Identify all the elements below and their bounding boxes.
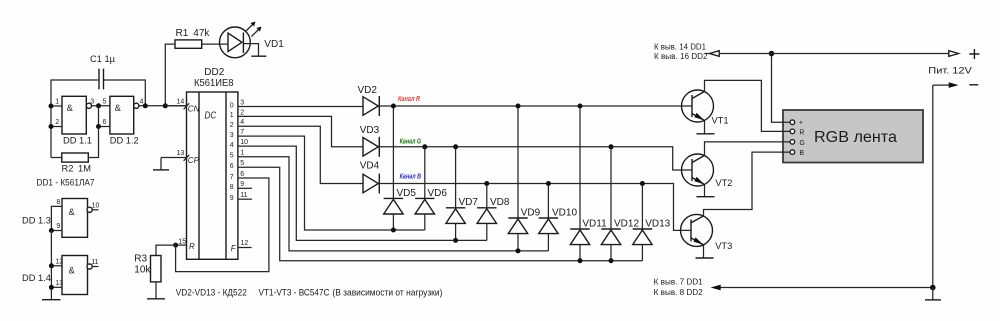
svg-text:DD1 - К561ЛА7: DD1 - К561ЛА7 xyxy=(37,178,95,188)
wire VT2 emitter to ground xyxy=(704,185,706,197)
svg-text:4: 4 xyxy=(140,98,144,105)
svg-text:VD3: VD3 xyxy=(360,125,380,136)
wire VD1 cathode to ground xyxy=(243,44,258,57)
output bubble pin 4 DD1.2 xyxy=(134,98,144,108)
ground bottom right xyxy=(925,288,941,300)
svg-text:VD5: VD5 xyxy=(397,188,417,199)
diode VD7 xyxy=(446,147,478,241)
svg-text:CP: CP xyxy=(188,156,200,165)
svg-text:G: G xyxy=(799,140,804,147)
diode VD8 xyxy=(477,184,510,241)
svg-text:&: & xyxy=(67,103,74,113)
pin 14 CN input xyxy=(165,98,199,113)
svg-text:VT3: VT3 xyxy=(715,241,732,251)
wire junction down to pin 6 xyxy=(99,106,110,127)
svg-text:DD 1.4: DD 1.4 xyxy=(22,273,51,283)
svg-text:C1 1µ: C1 1µ xyxy=(90,54,116,64)
svg-text:1: 1 xyxy=(240,150,244,157)
wire R1 left down to CN node xyxy=(165,44,175,106)
resistor R1 47k xyxy=(175,28,210,48)
diode VD13 xyxy=(633,184,671,261)
diode VD9 xyxy=(508,106,540,251)
svg-text:R2 1M: R2 1M xyxy=(62,163,91,173)
bottom return wire to arrow xyxy=(711,285,933,291)
node junction VD7 top on G xyxy=(453,144,458,149)
wire input bus down xyxy=(50,231,52,300)
svg-text:R: R xyxy=(189,242,195,251)
node junction R1 branch xyxy=(163,103,168,108)
svg-text:6: 6 xyxy=(240,171,244,178)
node junction pin 9 xyxy=(49,228,54,233)
svg-text:8: 8 xyxy=(230,184,234,191)
svg-text:DD 1.2: DD 1.2 xyxy=(110,136,139,146)
capacitor C1 xyxy=(90,54,116,89)
wire DD1.1 out to DD1.2 inputs xyxy=(92,105,110,107)
diode VD11 xyxy=(570,106,607,261)
svg-text:VD6: VD6 xyxy=(428,188,448,199)
wire out8 pin9 stub xyxy=(238,187,252,189)
svg-text:К выв. 16 DD2: К выв. 16 DD2 xyxy=(654,52,708,61)
svg-text:+: + xyxy=(799,120,803,127)
svg-text:VT2: VT2 xyxy=(715,178,732,188)
svg-text:9: 9 xyxy=(240,181,244,188)
ground CP xyxy=(153,158,169,170)
counter DD2 K561IE8 xyxy=(187,67,238,259)
node junction R pin xyxy=(173,243,178,248)
svg-text:15: 15 xyxy=(178,238,186,245)
svg-text:3: 3 xyxy=(230,132,234,139)
+12V rail xyxy=(705,51,959,57)
wire VT3 emitter to ground xyxy=(703,245,705,258)
svg-text:5: 5 xyxy=(103,98,107,105)
pin 8 DD1.3 xyxy=(51,199,62,231)
diode VD5 xyxy=(384,106,417,230)
wire VT1 collector to RGB R pin xyxy=(705,80,791,131)
svg-text:10k: 10k xyxy=(134,264,151,275)
node junction pin 12 xyxy=(49,263,54,268)
ground R3 xyxy=(147,282,165,299)
wire out7 pin6 to R pin xyxy=(176,178,269,272)
svg-text:Канал R: Канал R xyxy=(398,96,420,103)
node junction bottom ground xyxy=(930,285,936,291)
svg-text:VD2: VD2 xyxy=(358,85,378,96)
svg-text:5: 5 xyxy=(230,153,234,160)
svg-text:R1 47k: R1 47k xyxy=(176,28,211,39)
svg-text:7: 7 xyxy=(230,174,234,181)
DD2 output labels 0-9 xyxy=(230,102,234,202)
DD2 output pin numbers xyxy=(240,99,248,199)
gate DD1.4 xyxy=(22,256,88,295)
ground VD1 xyxy=(251,55,266,57)
wire out6 pin5 to bus4 xyxy=(238,167,643,260)
svg-text:0: 0 xyxy=(230,102,234,109)
diode VD4 xyxy=(360,161,380,194)
minus vertical rail xyxy=(932,85,934,287)
svg-text:8: 8 xyxy=(56,199,60,206)
resistor R2 1M xyxy=(62,153,91,173)
diode VD3 xyxy=(360,125,380,157)
pin R RGB xyxy=(790,129,804,136)
pin B RGB xyxy=(790,150,804,157)
diode VD2 xyxy=(358,85,380,116)
svg-text:9: 9 xyxy=(56,223,60,230)
wire R1 right to LED xyxy=(202,43,228,45)
wire out9 pin11 stub xyxy=(238,198,252,200)
ground VT2 xyxy=(697,196,715,198)
wire out2 pin4 to VD4 xyxy=(238,126,363,183)
svg-text:9: 9 xyxy=(230,195,234,202)
svg-text:B: B xyxy=(799,150,804,157)
transistor VT1 xyxy=(682,90,729,126)
node junction DD1.1 input pin2 xyxy=(49,124,54,129)
svg-text:4: 4 xyxy=(240,119,244,126)
pin 1 DD1.1 xyxy=(51,98,62,106)
svg-text:6: 6 xyxy=(103,119,107,126)
svg-text:13: 13 xyxy=(55,280,63,287)
wire C1 left to DD1.1 inputs xyxy=(51,80,99,158)
transistor VT2 xyxy=(682,154,733,188)
pin 2 DD1.1 xyxy=(51,119,62,127)
diode VD6 xyxy=(415,147,447,230)
output bubble pin 11 DD1.4 xyxy=(87,259,99,269)
transistor VT3 xyxy=(681,214,733,251)
wire DD1.2 output to DD2 CN xyxy=(139,105,187,107)
svg-text:VD1: VD1 xyxy=(264,39,284,50)
svg-text:5: 5 xyxy=(240,160,244,167)
svg-text:DD 1.3: DD 1.3 xyxy=(22,216,51,226)
pin 12 DD1.4 xyxy=(51,258,63,266)
node junction DD1.1 input pin1 xyxy=(49,104,54,109)
svg-text:VD10: VD10 xyxy=(552,207,577,218)
svg-text:12: 12 xyxy=(241,240,249,247)
svg-text:3: 3 xyxy=(240,99,244,106)
svg-text:6: 6 xyxy=(230,163,234,170)
node junction DD1.2 pin6 xyxy=(96,124,101,129)
node junction VD12 top on G xyxy=(609,144,614,149)
svg-text:VD12: VD12 xyxy=(614,218,639,229)
pin 15 R input xyxy=(176,238,195,251)
wire +12V to RGB + pin xyxy=(772,54,791,123)
svg-text:&: & xyxy=(69,266,76,276)
wire R2 left xyxy=(51,157,62,159)
node junction +12V rail xyxy=(769,51,775,57)
resistor R3 10k xyxy=(134,245,175,282)
node junction VD5 top on R xyxy=(391,104,396,109)
diode VD12 xyxy=(601,147,639,261)
node junction C1 feedback xyxy=(143,103,148,108)
svg-text:VD2-VD13 - КД522: VD2-VD13 - КД522 xyxy=(176,288,247,298)
gate DD1.1 xyxy=(62,96,92,145)
svg-text:11: 11 xyxy=(91,259,98,266)
wire VT2 collector to RGB G pin xyxy=(705,142,791,156)
pin 13 CP input xyxy=(161,150,200,165)
node junction VD5 bottom bus1 xyxy=(391,228,396,233)
svg-text:VT1: VT1 xyxy=(712,116,729,126)
ground VT3 xyxy=(696,257,714,259)
svg-text:1: 1 xyxy=(230,112,234,119)
wire C1 right to DD1.2 output node xyxy=(104,80,146,106)
wire out4 pin10 to bus2 xyxy=(238,146,487,240)
svg-text:VD7: VD7 xyxy=(459,197,479,208)
node junction VD10 top on B xyxy=(546,181,551,186)
svg-text:VD13: VD13 xyxy=(645,218,670,229)
wire VT3 collector to RGB B pin xyxy=(704,152,791,216)
svg-text:3: 3 xyxy=(90,98,94,105)
svg-text:2: 2 xyxy=(230,122,234,129)
plus terminal xyxy=(969,49,979,59)
svg-text:11: 11 xyxy=(240,192,247,199)
node Kanal R line xyxy=(379,105,692,107)
svg-text:&: & xyxy=(69,207,76,217)
svg-text:R: R xyxy=(799,129,804,136)
svg-text:DD 1.1: DD 1.1 xyxy=(63,136,92,146)
node junction VD13 top on B xyxy=(640,181,645,186)
svg-text:(В зависимости от нагрузки): (В зависимости от нагрузки) xyxy=(332,288,442,298)
svg-text:Канал G: Канал G xyxy=(400,139,422,146)
svg-text:13: 13 xyxy=(177,150,185,157)
svg-text:К выв. 7 DD1: К выв. 7 DD1 xyxy=(654,277,704,286)
svg-text:2: 2 xyxy=(240,109,244,116)
svg-text:&: & xyxy=(115,103,122,113)
svg-text:4: 4 xyxy=(230,142,234,149)
wire out5 pin1 to bus3 xyxy=(238,157,549,251)
LED VD1 xyxy=(220,27,285,58)
svg-text:7: 7 xyxy=(240,129,244,136)
pin 13 DD1.4 xyxy=(51,280,63,288)
svg-text:1: 1 xyxy=(55,98,59,105)
output bubble pin 10 DD1.3 xyxy=(87,202,99,212)
svg-text:VD11: VD11 xyxy=(582,218,607,229)
node Kanal G line xyxy=(379,147,692,170)
node junction VD6 top on G xyxy=(422,144,427,149)
svg-text:12: 12 xyxy=(55,258,63,265)
svg-text:DC: DC xyxy=(205,111,217,122)
LED arrows xyxy=(246,22,262,37)
wire out0 pin3 to VD2 xyxy=(238,106,363,108)
wire VT1 emitter to ground xyxy=(704,121,706,134)
svg-text:К выв. 8 DD2: К выв. 8 DD2 xyxy=(654,288,704,297)
RGB strip block xyxy=(783,110,923,163)
node junction VD12 bottom bus4 xyxy=(609,258,614,263)
wire out3 pin7 to bus1 xyxy=(238,136,425,230)
node junction VD9 top on R xyxy=(516,104,521,109)
svg-text:К выв. 14 DD1: К выв. 14 DD1 xyxy=(654,42,707,51)
node junction VD9 bottom bus3 xyxy=(516,248,521,253)
svg-text:Пит. 12V: Пит. 12V xyxy=(928,66,973,76)
svg-text:R3: R3 xyxy=(134,253,147,264)
node junction DD1.2 pin5 xyxy=(96,103,101,108)
ground DD1 inputs xyxy=(42,299,61,301)
node junction VD11 bottom bus4 xyxy=(578,258,583,263)
svg-text:10: 10 xyxy=(92,202,100,209)
node Kanal B line xyxy=(379,184,691,231)
svg-text:VD8: VD8 xyxy=(490,197,510,208)
node junction VD11 top on R xyxy=(578,104,583,109)
svg-text:10: 10 xyxy=(240,139,248,146)
wire out1 pin2 to VD3 xyxy=(238,116,363,146)
node junction VD7 bottom bus2 xyxy=(453,238,458,243)
gate DD1.3 xyxy=(22,199,88,238)
minus terminal xyxy=(969,84,978,86)
minus feed wire xyxy=(933,82,959,88)
svg-text:DD2: DD2 xyxy=(204,67,224,78)
svg-text:К561ИЕ8: К561ИЕ8 xyxy=(194,78,234,89)
svg-text:RGB лента: RGB лента xyxy=(814,129,897,146)
pin G RGB xyxy=(790,140,805,147)
pin + RGB xyxy=(790,120,803,127)
svg-text:VD9: VD9 xyxy=(521,207,541,218)
svg-text:Канал B: Канал B xyxy=(400,174,422,181)
svg-text:CN: CN xyxy=(188,105,200,114)
node junction VD8 top on B xyxy=(484,181,489,186)
wire R2 right up to DD1.2 input node xyxy=(88,127,98,158)
svg-text:14: 14 xyxy=(177,98,185,105)
svg-text:VT1-VT3 - ВС547С: VT1-VT3 - ВС547С xyxy=(259,288,330,298)
output bubble pin 3 DD1.1 xyxy=(86,98,94,108)
svg-text:VD4: VD4 xyxy=(360,161,380,172)
node junction pin 13 xyxy=(49,285,54,290)
diode VD10 xyxy=(539,184,578,251)
ground VT1 xyxy=(697,133,715,135)
svg-text:2: 2 xyxy=(55,119,59,126)
gate DD1.2 xyxy=(103,96,139,145)
pin 12 F output stub xyxy=(231,240,252,253)
pin 9 DD1.3 xyxy=(51,223,62,231)
